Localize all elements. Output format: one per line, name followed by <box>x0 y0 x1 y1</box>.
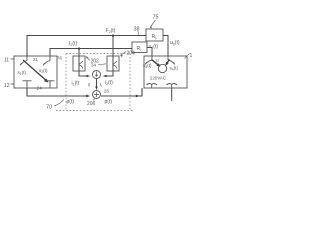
wire summing node 2 to cell 21 bottom <box>101 88 142 96</box>
cell 20 switch arc left <box>20 61 27 66</box>
wire R1 to cell 21 top <box>163 36 168 57</box>
svg-text:38: 38 <box>134 27 140 33</box>
cell 21 stub right <box>167 56 169 60</box>
cell 20 actuation arrow <box>23 60 47 81</box>
svg-text:λ: λ <box>100 83 103 88</box>
svg-text:I2(t): I2(t) <box>69 41 77 47</box>
cell 21 arc left <box>145 60 152 64</box>
wire branch F2 down from rail A <box>112 36 114 72</box>
dashed bottom boundary line <box>56 110 133 112</box>
svg-text:34: 34 <box>91 63 97 68</box>
leader arrow 75 to R1 <box>150 20 156 28</box>
wire rail B from cell 20 top to R2 <box>50 49 132 57</box>
leader 38 to rail A <box>137 31 140 36</box>
svg-text:1: 1 <box>190 53 193 59</box>
cell 20 contact bar left <box>23 81 32 88</box>
svg-text:RL: RL <box>152 34 158 40</box>
svg-text:12: 12 <box>155 58 160 63</box>
svg-text:75: 75 <box>153 15 159 21</box>
cell 21 stub left <box>151 56 153 60</box>
svg-text:ṽ: ṽ <box>88 83 91 88</box>
cell 21 rotor circle <box>158 64 166 72</box>
node junction on rail B <box>78 48 80 50</box>
svg-text:s3(t): s3(t) <box>143 63 152 69</box>
svg-text:26: 26 <box>104 89 109 94</box>
cell 21 contact bar right <box>167 84 178 88</box>
svg-text:76: 76 <box>57 56 62 61</box>
switch symbol inside 202 <box>79 61 83 69</box>
wire cell 21 output down <box>171 88 173 101</box>
svg-text:u2(t): u2(t) <box>170 40 180 46</box>
switch box 204 <box>107 56 119 71</box>
wire box202 to summing node <box>79 71 90 76</box>
svg-text:24: 24 <box>37 86 43 92</box>
wire box204 to summing node <box>104 71 114 76</box>
cell 20 contact bar right <box>46 81 55 88</box>
switch box 202 <box>73 56 85 71</box>
converter cell 21 box <box>144 56 187 88</box>
svg-text:11: 11 <box>4 58 9 64</box>
summing node 2 <box>93 91 101 99</box>
svg-text:12: 12 <box>4 83 10 89</box>
dashed model boundary box <box>66 53 130 55</box>
svg-text:p(t): p(t) <box>105 99 113 105</box>
cell 20 switch stub left <box>26 56 28 61</box>
wire summing node 1 to node 2 <box>96 79 98 90</box>
svg-text:206: 206 <box>87 101 96 107</box>
leader arrow 202 <box>86 57 90 61</box>
leader arrow 204 <box>121 52 127 56</box>
summing node 1 <box>93 71 101 79</box>
svg-text:F2(t): F2(t) <box>106 28 116 34</box>
cell 20 switch arc right <box>43 61 50 66</box>
leader label 21 cell <box>185 54 190 59</box>
cell 21 contact bar left <box>147 84 158 88</box>
svg-text:i1(t): i1(t) <box>72 81 80 87</box>
node junction on rail A <box>112 35 114 37</box>
svg-text:p(t): p(t) <box>67 99 75 105</box>
svg-text:s1(t): s1(t) <box>18 70 27 76</box>
wire rail A from cell 20 top to R1 <box>27 36 146 57</box>
svg-text:Ri: Ri <box>137 46 142 52</box>
cell 20 switch stub right <box>49 56 51 61</box>
cell 21 arc right <box>168 60 175 64</box>
terminal 11 <box>11 58 15 60</box>
wire cell 20 bottom to summing node 2 <box>27 88 90 96</box>
svg-text:i2(t): i2(t) <box>105 80 113 86</box>
svg-text:21: 21 <box>33 57 39 62</box>
terminal 12 <box>11 83 15 85</box>
cell 21 blade right <box>166 60 169 65</box>
resistor R2 box <box>132 42 147 53</box>
switch symbol inside 204 <box>113 61 117 69</box>
wire R2 to cell 21 top <box>147 48 152 57</box>
converter cell 20 box <box>14 56 57 88</box>
svg-text:s4(t): s4(t) <box>170 66 179 72</box>
svg-text:u1(t): u1(t) <box>149 44 159 50</box>
svg-text:204: 204 <box>127 51 136 57</box>
svg-text:70: 70 <box>46 105 52 111</box>
svg-text:220VAC: 220VAC <box>150 76 166 81</box>
leader 70 to rail <box>54 100 64 107</box>
svg-text:s2(t): s2(t) <box>39 68 48 74</box>
cell 21 blade left <box>152 60 160 66</box>
resistor R1 box <box>146 29 163 41</box>
wire branch I2 down from rail B <box>78 49 80 72</box>
